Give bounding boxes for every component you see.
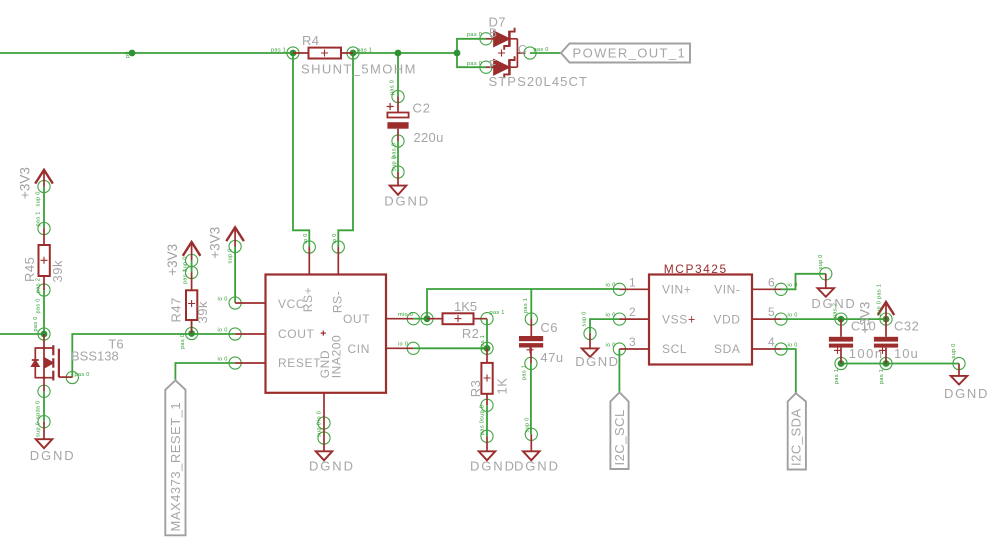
svg-text:C: C bbox=[518, 43, 527, 57]
wire T6 gate to COUT bbox=[72, 334, 235, 378]
wire C10 C32 bottom to DGND bbox=[841, 363, 959, 365]
resistor R4 bbox=[293, 48, 353, 59]
pin circle node R3 top bbox=[481, 342, 493, 354]
svg-text:pas 1: pas 1 bbox=[523, 298, 529, 313]
diode D7 dual schottky bbox=[486, 28, 526, 78]
pin lead GND ina bbox=[323, 393, 325, 452]
pin lead VCC bbox=[235, 302, 265, 304]
TINY GREEN PIN LABELS bbox=[33, 32, 957, 437]
svg-text:sup 0: sup 0 bbox=[582, 311, 588, 326]
svg-text:R4: R4 bbox=[302, 33, 319, 48]
svg-text:POWER_OUT_1: POWER_OUT_1 bbox=[573, 46, 687, 61]
svg-text:io 0: io 0 bbox=[218, 297, 228, 303]
ground DGND top right bbox=[818, 274, 835, 297]
svg-text:VDD: VDD bbox=[713, 312, 740, 326]
svg-text:DGND: DGND bbox=[384, 194, 430, 209]
svg-text:pas 0: pas 0 bbox=[467, 32, 482, 38]
svg-text:pas 0: pas 0 bbox=[392, 143, 398, 158]
svg-text:VIN+: VIN+ bbox=[662, 283, 691, 297]
svg-text:io 0: io 0 bbox=[788, 342, 798, 348]
svg-text:DGND: DGND bbox=[309, 458, 355, 473]
svg-text:pas 1: pas 1 bbox=[879, 369, 885, 384]
svg-text:sup 0: sup 0 bbox=[392, 156, 398, 171]
pin circle DGND vss bbox=[584, 327, 596, 339]
svg-text:C32: C32 bbox=[894, 318, 919, 333]
pin circle R45 bottom bbox=[38, 284, 50, 296]
pin lead OUT bbox=[386, 318, 413, 320]
op-amp U2 MCP3425 box bbox=[649, 275, 752, 365]
junction C10 bottom bbox=[838, 360, 845, 367]
svg-text:pas 0: pas 0 bbox=[33, 316, 39, 331]
pin circle CIN bbox=[407, 342, 419, 354]
pin circle OUT bbox=[407, 313, 419, 325]
pin circle +3V3 R47 bbox=[186, 254, 198, 266]
svg-text:DGND: DGND bbox=[575, 354, 619, 369]
svg-text:io 0: io 0 bbox=[317, 411, 323, 421]
pin circle T6 source bbox=[38, 385, 50, 397]
ground DGND below C6 bbox=[523, 434, 540, 460]
pin circle node C32 top bbox=[880, 313, 892, 325]
svg-text:VSS: VSS bbox=[662, 312, 688, 326]
wire VIN- to DGND bbox=[781, 274, 826, 290]
pin circle MCP pin6 bbox=[775, 283, 787, 295]
svg-text:100n: 100n bbox=[849, 346, 884, 361]
pin circle DGND top right bbox=[820, 268, 832, 280]
svg-text:F: F bbox=[489, 58, 497, 72]
svg-text:+3V3: +3V3 bbox=[17, 167, 32, 199]
svg-text:io 0: io 0 bbox=[788, 283, 798, 289]
pin lead MCP pin4 bbox=[752, 348, 781, 350]
pin circle DGND below T6 bbox=[38, 416, 50, 428]
pin circle RS+ bbox=[303, 241, 315, 253]
PIN CIRCLES bbox=[38, 33, 965, 444]
plus mark INA200 bbox=[321, 331, 326, 336]
svg-text:B: B bbox=[489, 26, 498, 40]
svg-text:DGND: DGND bbox=[470, 458, 516, 473]
junction C2 tap bbox=[395, 50, 402, 57]
pin circle DGND below C6 bbox=[525, 428, 537, 440]
supply +3V3 R47 bbox=[183, 242, 201, 260]
svg-text:1: 1 bbox=[629, 275, 637, 289]
svg-text:mio 0: mio 0 bbox=[398, 312, 413, 318]
svg-text:5: 5 bbox=[768, 305, 776, 319]
pin lead CIN bbox=[386, 347, 413, 349]
junction R4 pin2 bbox=[350, 50, 357, 57]
svg-text:10u: 10u bbox=[894, 346, 919, 361]
ground DGND below INA200 bbox=[316, 451, 333, 460]
junction D7 split bbox=[454, 50, 461, 57]
svg-text:MCP3425: MCP3425 bbox=[664, 262, 728, 276]
svg-text:sup 0 pas 1: sup 0 pas 1 bbox=[877, 284, 883, 316]
pin circle MCP pin1 bbox=[613, 283, 625, 295]
wire R3 to DGND bbox=[486, 405, 488, 436]
resistor R47 bbox=[186, 273, 197, 334]
pin lead MCP pin3 bbox=[619, 348, 649, 350]
svg-text:I2C_SCL: I2C_SCL bbox=[612, 409, 627, 465]
svg-text:pas 1: pas 1 bbox=[183, 269, 189, 284]
svg-text:sup 0: sup 0 bbox=[525, 417, 531, 432]
svg-text:spda 0: spda 0 bbox=[36, 400, 42, 419]
svg-text:io 0: io 0 bbox=[303, 233, 309, 243]
svg-text:4: 4 bbox=[768, 335, 776, 349]
wire T6 source to DGND bbox=[43, 391, 45, 421]
svg-text:pas 1: pas 1 bbox=[480, 335, 486, 350]
svg-text:DGND: DGND bbox=[944, 386, 989, 401]
RED TEXT bbox=[664, 262, 728, 327]
pin circle +3V3 R45 bbox=[38, 180, 50, 192]
junction OUT R2 bbox=[424, 315, 431, 322]
supply +3V3 C32 bbox=[878, 302, 894, 319]
svg-text:2: 2 bbox=[629, 305, 637, 319]
junction R45 T6 bbox=[41, 331, 48, 338]
svg-text:6: 6 bbox=[768, 275, 776, 289]
junction C10 top bbox=[838, 316, 845, 323]
svg-text:I2C_SDA: I2C_SDA bbox=[788, 408, 803, 466]
pin circle D7 anode bottom bbox=[480, 61, 492, 73]
svg-text:pas 1: pas 1 bbox=[834, 369, 840, 384]
svg-text:sup 0: sup 0 bbox=[228, 248, 234, 263]
svg-text:SHUNT_5MOHM: SHUNT_5MOHM bbox=[301, 62, 417, 77]
svg-text:pas 1: pas 1 bbox=[36, 211, 42, 226]
ground DGND below R3 bbox=[479, 436, 496, 460]
svg-text:+3V3: +3V3 bbox=[208, 227, 223, 259]
flag I2C_SCL bbox=[610, 392, 628, 469]
svg-text:io 0: io 0 bbox=[218, 328, 228, 334]
ground DGND at VSS bbox=[582, 334, 599, 358]
wire C6 to DGND bbox=[530, 363, 532, 434]
pin circle DGND bottom right bbox=[953, 357, 965, 369]
svg-text:1K5: 1K5 bbox=[454, 299, 477, 314]
pin circle GND ina lower bbox=[318, 432, 330, 444]
svg-text:pas 0: pas 0 bbox=[36, 298, 42, 313]
wire SCL to I2C_SCL flag bbox=[618, 349, 620, 392]
capacitor C10 bbox=[829, 319, 853, 363]
wire CIN to R3 junction bbox=[413, 347, 487, 349]
transistor T6 BSS138 bbox=[32, 334, 73, 391]
pin circle T6 gate bbox=[66, 371, 78, 383]
svg-text:COUT: COUT bbox=[278, 327, 314, 341]
pin lead RS- bbox=[337, 247, 339, 275]
pin circle R3 bottom bbox=[481, 399, 493, 411]
pin circle node R45 junction bbox=[38, 328, 50, 340]
RED SYMBOLS bbox=[32, 28, 968, 461]
pin circle node C10 bottom bbox=[835, 357, 847, 369]
pin circle C2 bottom bbox=[392, 135, 404, 147]
svg-text:+3V3: +3V3 bbox=[165, 244, 180, 276]
supply +3V3 VCC bbox=[226, 227, 244, 246]
svg-text:BSS138: BSS138 bbox=[71, 348, 119, 363]
op-amp U1 INA200 box bbox=[266, 275, 387, 393]
pin circle D7 cathode C bbox=[524, 47, 536, 59]
svg-text:pas 2: pas 2 bbox=[36, 278, 42, 293]
wire RS- from R4 right pin bbox=[338, 53, 353, 247]
wire D7 bottom branch bbox=[457, 53, 486, 67]
pin lead MCP pin2 bbox=[620, 318, 650, 320]
junction top rail bbox=[129, 50, 136, 57]
pin circle +3V3 VCC bbox=[229, 240, 241, 252]
FLAGS bbox=[165, 44, 806, 536]
svg-text:SCL: SCL bbox=[662, 342, 687, 356]
junction C32 top bbox=[883, 316, 890, 323]
svg-text:io 0: io 0 bbox=[218, 357, 228, 363]
pin circle RESET bbox=[229, 357, 241, 369]
wire left rail to R45 junction bbox=[0, 333, 44, 335]
svg-text:io 0: io 0 bbox=[606, 313, 616, 319]
svg-text:pas 1: pas 1 bbox=[490, 310, 505, 316]
ground DGND below C2 bbox=[390, 172, 407, 195]
svg-text:pas 0: pas 0 bbox=[75, 372, 90, 378]
svg-text:39k: 39k bbox=[50, 260, 65, 282]
svg-text:C2: C2 bbox=[413, 100, 431, 115]
svg-text:sup 0: sup 0 bbox=[479, 405, 485, 420]
svg-text:RS+: RS+ bbox=[301, 287, 315, 312]
supply +3V3 R45 bbox=[35, 170, 53, 187]
wire +3V3 to VCC bbox=[234, 247, 236, 304]
pin circle DGND below C2 bbox=[392, 166, 404, 178]
svg-text:io 0: io 0 bbox=[606, 342, 616, 348]
pin circle COUT bbox=[229, 328, 241, 340]
svg-text:pas 0: pas 0 bbox=[534, 47, 549, 53]
svg-text:39k: 39k bbox=[195, 301, 210, 323]
svg-text:OUT: OUT bbox=[343, 312, 370, 326]
pin circle MCP pin5 bbox=[775, 313, 787, 325]
pin circle R45 top bbox=[38, 222, 50, 234]
pin circle R4 pin1 bbox=[287, 47, 299, 59]
svg-text:pas 2: pas 2 bbox=[833, 303, 839, 318]
svg-text:sup 0: sup 0 bbox=[818, 254, 824, 269]
pin circle DGND below R3 bbox=[481, 430, 493, 442]
svg-text:p0: p0 bbox=[125, 51, 131, 58]
pin lead COUT bbox=[235, 333, 265, 335]
svg-text:pas 1: pas 1 bbox=[271, 48, 286, 54]
svg-text:io 0: io 0 bbox=[606, 283, 616, 289]
pin circle MCP pin2 bbox=[613, 313, 625, 325]
svg-text:pas 0: pas 0 bbox=[479, 420, 485, 435]
pin lead RESET bbox=[235, 362, 265, 364]
wire VSS+ to DGND bbox=[590, 319, 620, 333]
svg-text:RS-: RS- bbox=[330, 291, 344, 313]
ground DGND below T6 bbox=[36, 422, 53, 449]
svg-text:C10: C10 bbox=[851, 318, 876, 333]
svg-text:C6: C6 bbox=[540, 320, 558, 335]
svg-text:MAX4373_RESET_1: MAX4373_RESET_1 bbox=[168, 402, 183, 532]
pin circle R4 pin2 bbox=[347, 47, 359, 59]
pin circle MCP pin3 bbox=[613, 343, 625, 355]
pin circle node C32 bottom bbox=[880, 357, 892, 369]
wire D7 cathode to POWER_OUT_1 flag bbox=[530, 52, 561, 54]
svg-text:sup 0: sup 0 bbox=[36, 422, 42, 437]
wire R4 right to D7 split bbox=[353, 52, 457, 54]
wire C2 to DGND bbox=[397, 141, 399, 172]
svg-text:VIN-: VIN- bbox=[714, 283, 740, 297]
svg-text:R47: R47 bbox=[169, 297, 184, 322]
pin circle R2 right bbox=[481, 313, 493, 325]
flag POWER_OUT_1 bbox=[561, 44, 690, 63]
wire +3V3 to R45 bbox=[43, 187, 45, 229]
pin lead MCP pin1 bbox=[620, 288, 650, 290]
junction R4 pin1 bbox=[290, 50, 297, 57]
svg-text:INA200: INA200 bbox=[330, 335, 344, 379]
resistor R2 bbox=[427, 313, 487, 324]
svg-text:220u: 220u bbox=[414, 130, 444, 145]
resistor R3 bbox=[481, 348, 492, 405]
svg-text:pas 1: pas 1 bbox=[357, 48, 372, 54]
capacitor C32 bbox=[874, 319, 898, 363]
wire C2 branch bbox=[397, 53, 399, 97]
junction R47 bbox=[188, 330, 195, 337]
wire R45 to junction bbox=[43, 290, 45, 334]
svg-text:pas 1: pas 1 bbox=[522, 365, 528, 380]
wire R2 right down to R3 bbox=[486, 319, 488, 349]
wire top rail left bbox=[0, 52, 293, 54]
pin circle R47 top bbox=[186, 266, 198, 278]
svg-text:R2: R2 bbox=[462, 326, 479, 341]
capacitor C2 bbox=[387, 97, 409, 142]
ground DGND bottom right bbox=[951, 364, 968, 385]
junction C32 bottom bbox=[883, 360, 890, 367]
wire C6 top branch bbox=[530, 289, 532, 319]
svg-text:pas 0: pas 0 bbox=[390, 80, 396, 95]
pin lead MCP pin5 bbox=[752, 318, 781, 320]
pin lead RS+ bbox=[308, 247, 310, 275]
svg-text:sup 0: sup 0 bbox=[317, 422, 323, 437]
pin circle C2 top bbox=[392, 90, 404, 102]
svg-text:CIN: CIN bbox=[348, 342, 370, 356]
wire VDD rail to +3V3 bbox=[781, 318, 886, 320]
svg-text:sup 0: sup 0 bbox=[951, 343, 957, 358]
svg-text:pas 0: pas 0 bbox=[467, 61, 482, 67]
pin circle GND ina upper bbox=[318, 417, 330, 429]
wire SDA to I2C_SDA flag bbox=[781, 349, 796, 393]
junction CIN R3 bbox=[484, 345, 491, 352]
wire OUT junction up to VIN+ rail bbox=[427, 289, 620, 319]
pin circle C6 bottom bbox=[525, 357, 537, 369]
wire RS+ from R4 left pin bbox=[293, 53, 309, 247]
pin circle C6 top bbox=[525, 313, 537, 325]
svg-text:R3: R3 bbox=[468, 380, 483, 398]
pin circle D7 anode top bbox=[480, 33, 492, 45]
pin circle MCP pin4 bbox=[775, 343, 787, 355]
wire R47 to junction bbox=[191, 320, 193, 334]
capacitor C6 bbox=[519, 319, 543, 363]
flag I2C_SDA bbox=[788, 393, 806, 469]
pin circle node C10 top bbox=[835, 313, 847, 325]
svg-text:STPS20L45CT: STPS20L45CT bbox=[489, 74, 589, 89]
wire OUT to R2 bbox=[413, 318, 427, 320]
svg-text:io 0: io 0 bbox=[788, 313, 798, 319]
svg-text:sup 0: sup 0 bbox=[36, 191, 42, 206]
svg-text:DGND: DGND bbox=[514, 458, 560, 473]
flag MAX4373_RESET_1 bbox=[165, 380, 185, 535]
resistor R45 bbox=[39, 229, 50, 291]
svg-text:io 0: io 0 bbox=[332, 233, 338, 243]
pin circle VCC bbox=[229, 297, 241, 309]
svg-text:RESET: RESET bbox=[278, 356, 321, 370]
svg-text:47u: 47u bbox=[540, 350, 563, 365]
wire MAX4373 flag to RESET bbox=[175, 363, 235, 380]
svg-text:1K: 1K bbox=[495, 378, 510, 395]
pin lead MCP pin6 bbox=[752, 288, 781, 290]
svg-text:io 0: io 0 bbox=[398, 342, 408, 348]
wire +3V3 to R47 bbox=[191, 260, 193, 272]
svg-text:pas 0: pas 0 bbox=[180, 334, 186, 349]
pin circle RS- bbox=[332, 241, 344, 253]
pin circle R47 junction bbox=[186, 327, 198, 339]
wire D7 top branch bbox=[457, 39, 486, 53]
svg-text:+: + bbox=[688, 313, 696, 327]
svg-text:DGND: DGND bbox=[30, 448, 76, 463]
pin circle node R2 out bbox=[421, 313, 433, 325]
svg-text:SDA: SDA bbox=[714, 342, 740, 356]
svg-text:3: 3 bbox=[629, 335, 637, 349]
